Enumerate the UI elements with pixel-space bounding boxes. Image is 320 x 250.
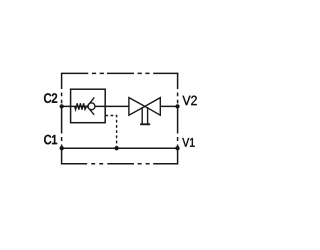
shut-off valve left triangle — [129, 98, 145, 116]
node V2 (junction dot) — [175, 104, 179, 108]
enclosure boundary left edge (phantom dashed) — [61, 73, 63, 165]
node C1 (junction dot) — [60, 146, 64, 150]
check valve envelope box — [71, 89, 106, 123]
port label V2 — [183, 96, 197, 105]
wire C1 to V1 (bottom flow line) — [62, 147, 178, 149]
port label V1 — [182, 138, 194, 147]
shut-off valve stem (double line) — [142, 107, 147, 123]
shut-off valve seat bar — [140, 123, 150, 125]
port label C2 — [44, 93, 57, 102]
wire C2 to V2 (top flow line) — [62, 105, 178, 107]
port label C1 — [44, 135, 57, 144]
check valve seat (V) — [87, 97, 94, 114]
node V1 (junction dot) — [175, 146, 179, 150]
node C2 (junction dot) — [60, 104, 64, 108]
pilot line (dashed) from check valve box to C1-V1 line — [105, 116, 116, 149]
shut-off valve right triangle — [145, 98, 160, 116]
enclosure boundary top edge (phantom dashed) — [62, 72, 179, 74]
enclosure boundary bottom edge (phantom dashed) — [62, 163, 179, 165]
spring of check valve — [75, 103, 88, 109]
check valve ball — [88, 103, 95, 110]
pilot junction node on C1-V1 line — [114, 146, 118, 150]
enclosure boundary right edge (phantom dashed) — [177, 73, 179, 165]
